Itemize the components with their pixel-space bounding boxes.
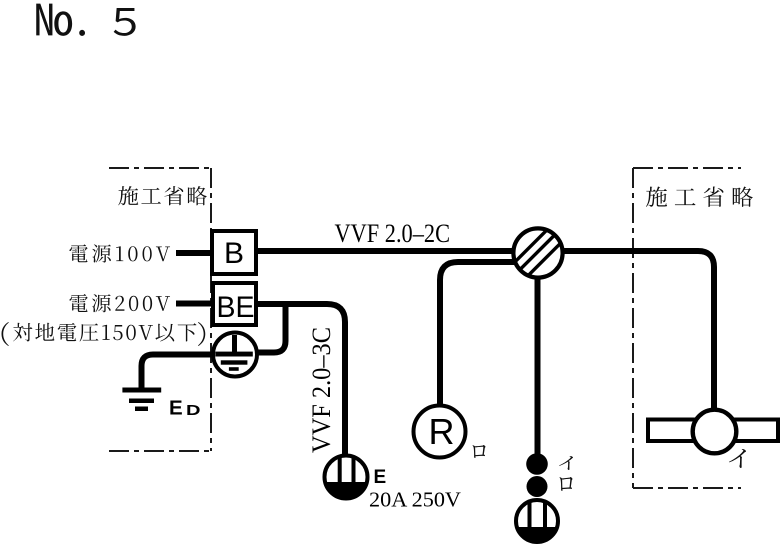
svg-text:VVF 2.0–2C: VVF 2.0–2C: [335, 219, 451, 248]
svg-text:E: E: [374, 467, 387, 488]
svg-text:E: E: [169, 397, 183, 420]
svg-text:VVF 2.0–3C: VVF 2.0–3C: [307, 327, 336, 453]
svg-text:D: D: [186, 402, 201, 419]
svg-text:B: B: [224, 237, 244, 270]
svg-text:R: R: [429, 411, 455, 452]
svg-text:BE: BE: [217, 291, 255, 324]
svg-text:20A 250V: 20A 250V: [369, 488, 461, 512]
